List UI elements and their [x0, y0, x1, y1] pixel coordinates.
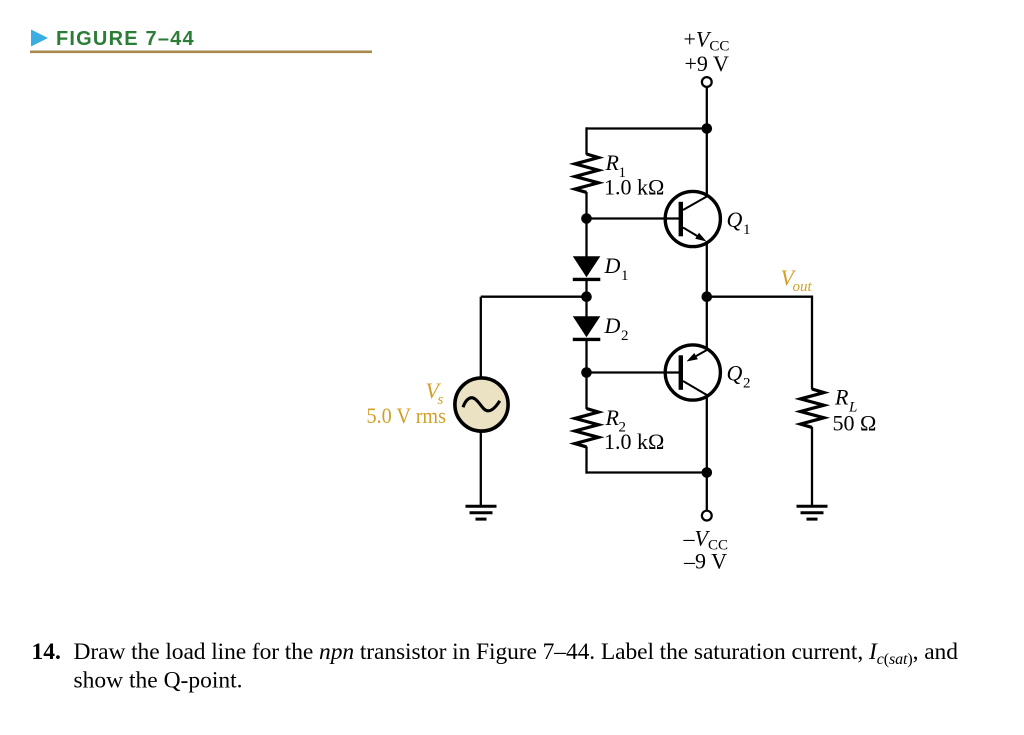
- diode D2: [573, 316, 601, 337]
- wire bottom rail: [587, 471, 707, 473]
- resistor RL: [801, 389, 825, 427]
- figure header rule: [30, 51, 372, 54]
- svg-text:FIGURE 7–44: FIGURE 7–44: [56, 28, 195, 50]
- wire R1 to node A: [585, 192, 587, 219]
- wire D2 to node C: [585, 339, 587, 373]
- svg-text:R: R: [605, 150, 620, 175]
- wire Q2 emitter: [706, 297, 708, 351]
- +Vcc terminal: [702, 77, 712, 87]
- ground (load): [797, 506, 828, 519]
- wire Q2 collector: [706, 394, 708, 473]
- junction output node: [702, 291, 713, 302]
- wire load branch down: [811, 296, 813, 390]
- wire Q1 collector: [706, 129, 708, 198]
- wire D1 to node B: [585, 279, 587, 297]
- wire source to node B: [481, 296, 587, 298]
- svg-text:1.0 kΩ: 1.0 kΩ: [604, 175, 664, 200]
- problem text item 14: [32, 639, 959, 694]
- wire node A to D1: [585, 219, 587, 258]
- source Vs: [455, 378, 508, 431]
- svg-text:Q: Q: [727, 207, 743, 232]
- junction node A: [581, 213, 592, 224]
- svg-text:Draw the load line for the npn: Draw the load line for the npn transisto…: [74, 639, 959, 668]
- svg-text:show the Q-point.: show the Q-point.: [74, 668, 243, 694]
- svg-text:out: out: [793, 279, 813, 295]
- wire node B to source: [480, 297, 482, 377]
- svg-text:5.0 V rms: 5.0 V rms: [367, 403, 447, 428]
- wire Q1 emitter to output node: [706, 241, 708, 297]
- junction node C: [581, 367, 592, 378]
- svg-text:1.0 kΩ: 1.0 kΩ: [604, 429, 664, 454]
- wire R2 to bottom rail: [585, 447, 587, 474]
- svg-text:50 Ω: 50 Ω: [833, 411, 877, 436]
- svg-text:R: R: [605, 405, 620, 430]
- svg-text:R: R: [834, 385, 849, 410]
- resistor R1: [575, 154, 599, 192]
- wire Q2 base: [587, 371, 680, 373]
- wire output node to load: [707, 296, 812, 298]
- svg-text:Q: Q: [727, 361, 743, 386]
- junction top node: [702, 123, 713, 134]
- svg-text:+9 V: +9 V: [685, 51, 730, 76]
- junction node B: [581, 291, 592, 302]
- junction bottom node: [702, 467, 713, 478]
- transistor Q2: [665, 345, 720, 400]
- svg-text:2: 2: [621, 328, 629, 344]
- wire node C to R2: [585, 373, 587, 410]
- svg-text:D: D: [604, 313, 621, 338]
- svg-text:–9 V: –9 V: [683, 549, 727, 574]
- wire Q1 base: [587, 217, 680, 219]
- wire top rail to R1: [585, 127, 587, 154]
- svg-text:1: 1: [621, 268, 629, 284]
- svg-text:14.: 14.: [32, 639, 61, 665]
- wire +Vcc terminal to top node: [706, 87, 708, 129]
- svg-text:1: 1: [743, 222, 751, 238]
- wire top rail: [587, 127, 707, 129]
- wire RL to ground: [811, 427, 813, 506]
- wire bottom node to -Vcc terminal: [706, 473, 708, 511]
- wire node B to D2: [585, 297, 587, 317]
- resistor R2: [575, 409, 599, 447]
- ground (source): [466, 506, 497, 519]
- figure header marker triangle: [31, 30, 48, 47]
- -Vcc terminal: [702, 511, 712, 521]
- svg-text:2: 2: [743, 376, 751, 392]
- svg-text:D: D: [604, 253, 621, 278]
- transistor Q1: [665, 191, 720, 246]
- diode D1: [573, 256, 601, 277]
- source sine symbol: [463, 398, 500, 411]
- wire source to ground: [480, 432, 482, 507]
